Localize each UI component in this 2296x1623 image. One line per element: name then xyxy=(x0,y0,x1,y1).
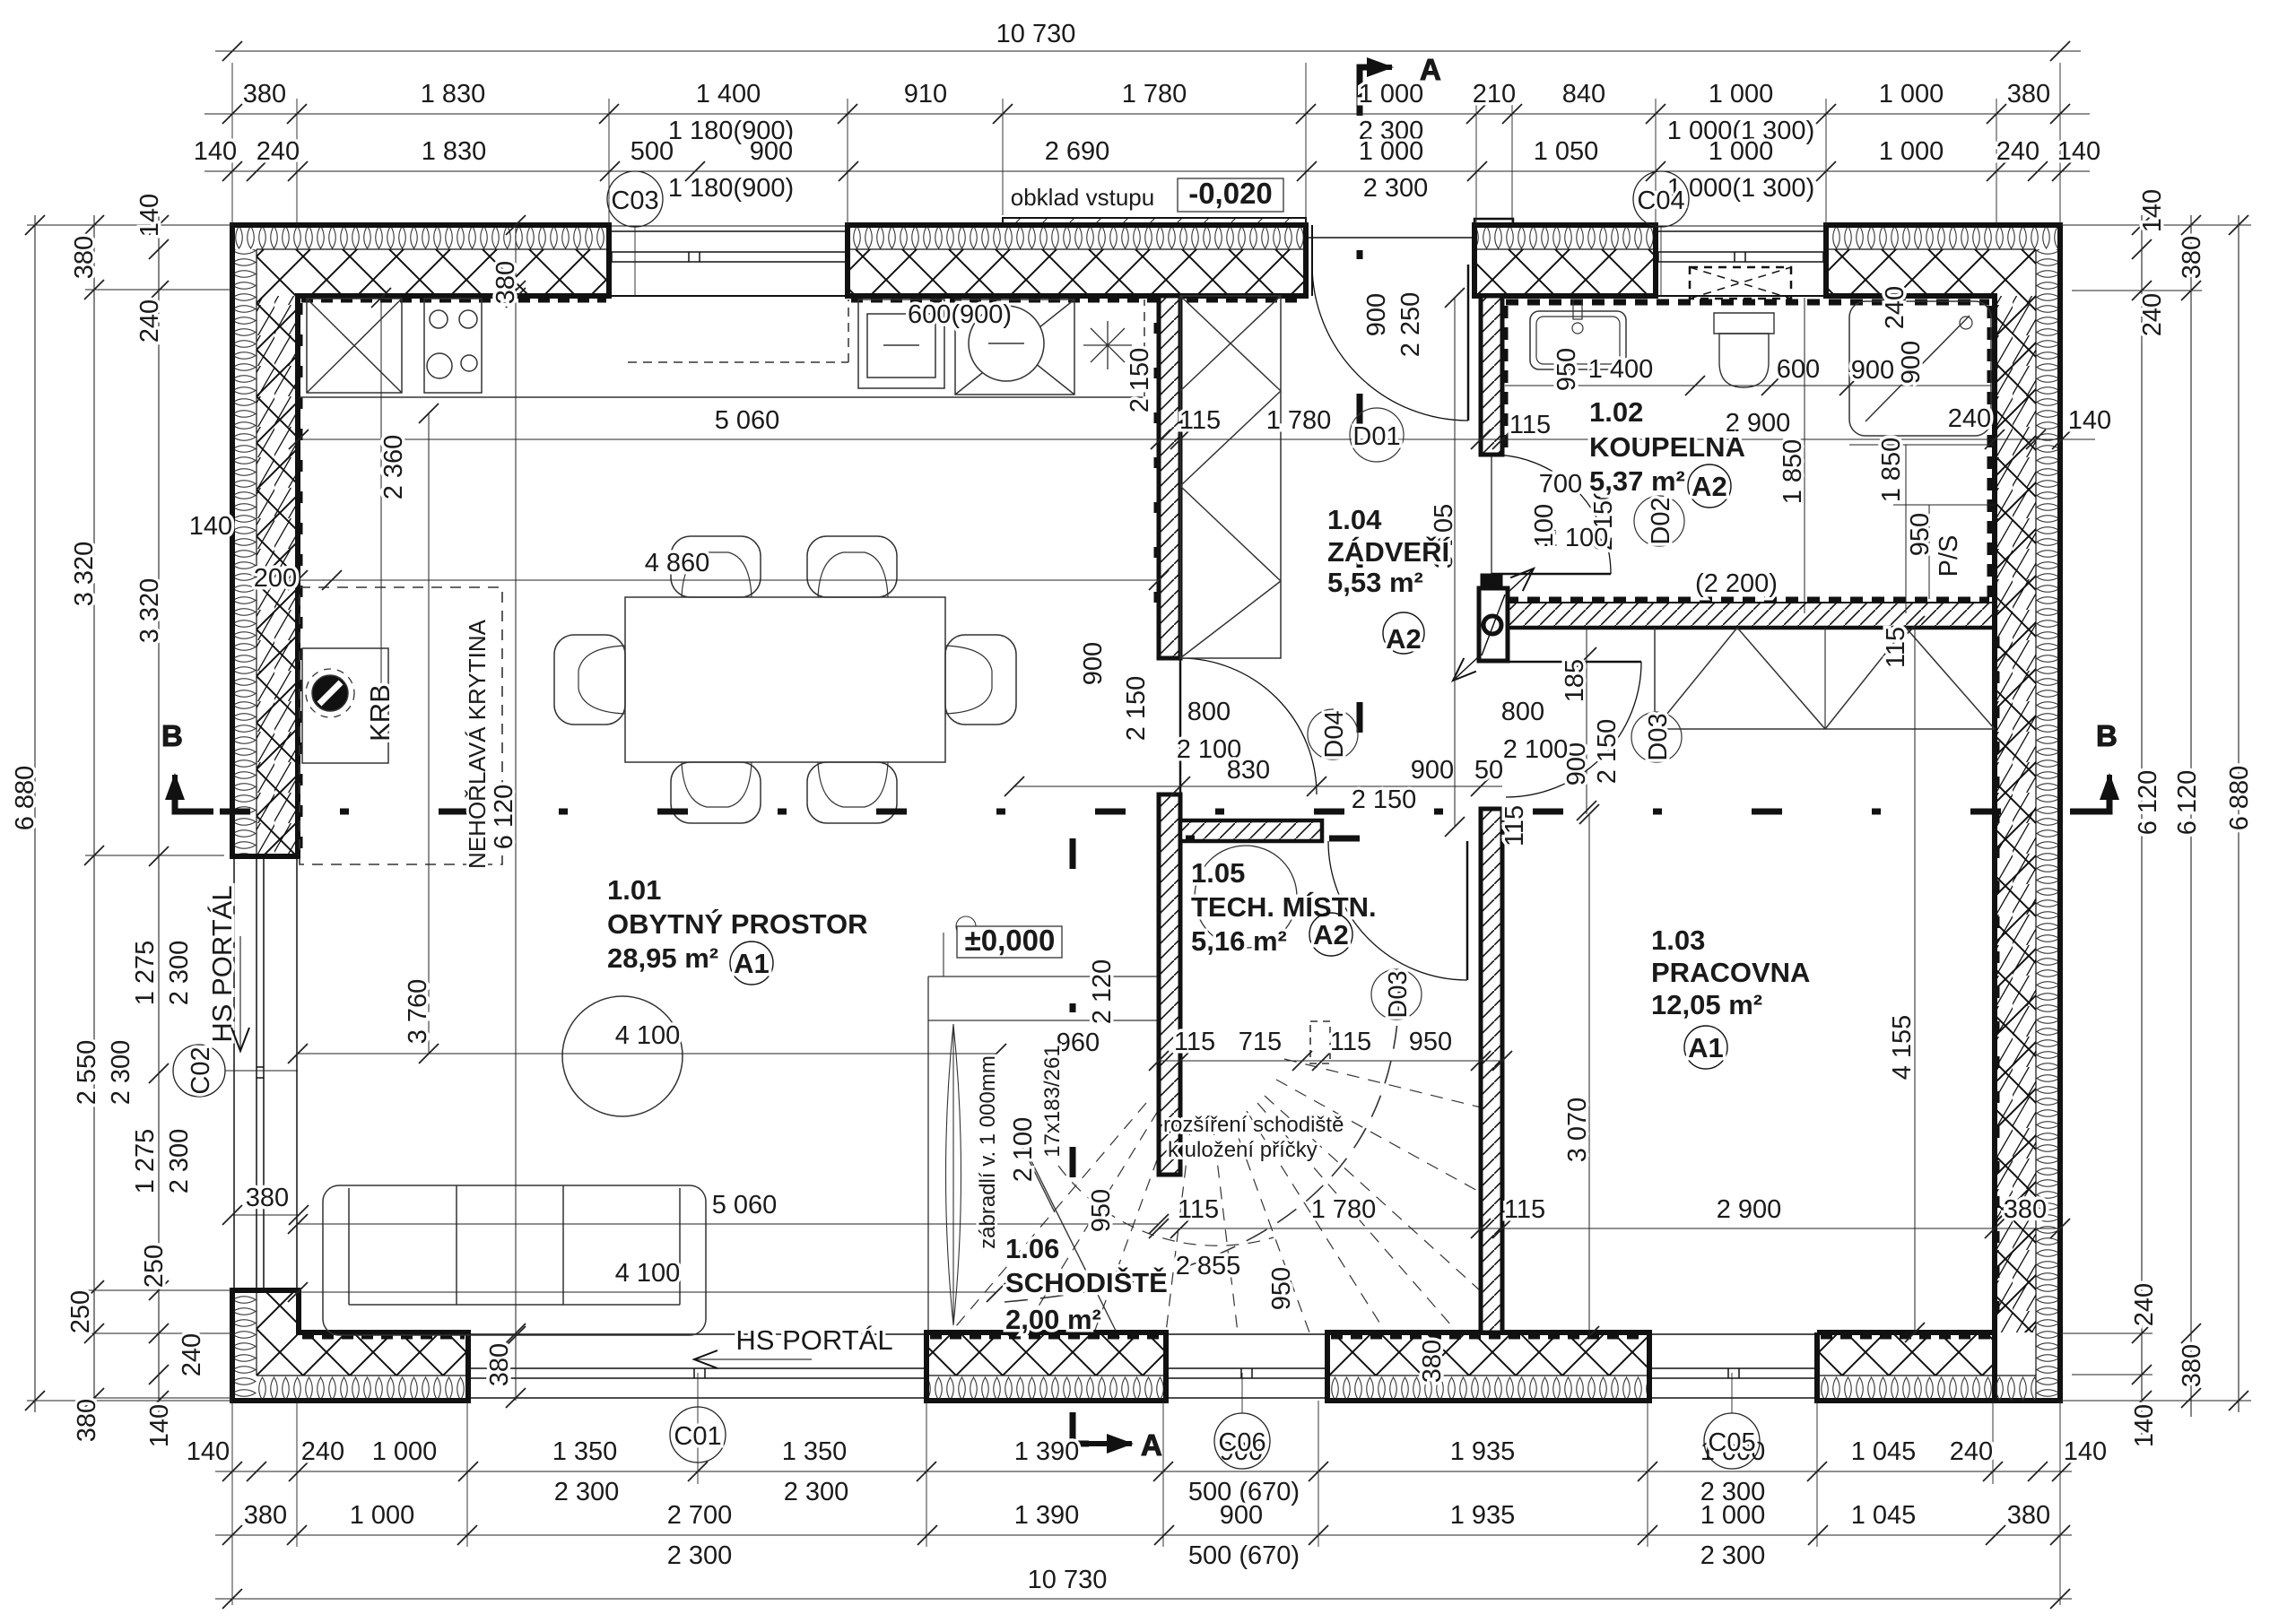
section A top arrow xyxy=(1360,67,1392,100)
svg-text:A2: A2 xyxy=(1313,919,1349,950)
svg-text:C02: C02 xyxy=(187,1046,215,1094)
svg-text:1 850: 1 850 xyxy=(1779,439,1807,505)
right dim col A xyxy=(2130,189,2167,1447)
svg-text:115: 115 xyxy=(1509,411,1551,439)
svg-text:1 935: 1 935 xyxy=(1450,1501,1516,1530)
HS PORTAL bottom xyxy=(694,1324,893,1359)
svg-text:1.05: 1.05 xyxy=(1191,857,1245,889)
svg-text:(2 200): (2 200) xyxy=(1695,569,1778,598)
window C04 (top right) xyxy=(1656,226,1826,299)
entrance door D01 xyxy=(1306,225,1474,421)
level -0,020 box xyxy=(1178,177,1283,212)
window circle C03 xyxy=(607,171,663,296)
interior wall W1 living/zadveri xyxy=(1157,296,1180,658)
svg-text:1 275: 1 275 xyxy=(131,941,160,1006)
svg-text:zábradlí v. 1 000mm: zábradlí v. 1 000mm xyxy=(976,1055,1000,1249)
svg-text:115: 115 xyxy=(1882,627,1910,668)
svg-text:115: 115 xyxy=(1174,1028,1215,1056)
svg-text:1 780: 1 780 xyxy=(1311,1195,1377,1224)
svg-text:1.03: 1.03 xyxy=(1651,924,1705,956)
svg-text:1 780: 1 780 xyxy=(1266,406,1332,435)
svg-text:240: 240 xyxy=(2130,1283,2159,1326)
svg-text:2 150: 2 150 xyxy=(1593,719,1622,785)
svg-text:115: 115 xyxy=(1330,1028,1371,1056)
svg-text:185: 185 xyxy=(1561,659,1589,702)
svg-text:210: 210 xyxy=(1473,80,1516,108)
svg-text:4 100: 4 100 xyxy=(615,1021,681,1050)
rozsireni schodiste note xyxy=(1163,1113,1344,1162)
wall stub below D02 xyxy=(1481,574,1502,588)
section line B-B horizontal y=905 xyxy=(220,809,2090,815)
dim row pracovna y=1370 xyxy=(1149,1195,2070,1238)
svg-text:950: 950 xyxy=(1087,1189,1116,1232)
window circle C01 xyxy=(670,1373,726,1462)
svg-text:A: A xyxy=(1141,1428,1162,1462)
svg-text:1 000: 1 000 xyxy=(1879,137,1944,166)
pracovna dims xyxy=(1563,616,1925,1346)
chair bottom 2 xyxy=(807,762,897,823)
svg-text:715: 715 xyxy=(1239,1028,1282,1056)
svg-text:1 400: 1 400 xyxy=(1588,355,1654,384)
window C01 (bottom) xyxy=(468,1334,926,1398)
room 1.04 zadveri xyxy=(1327,504,1450,655)
svg-text:D03: D03 xyxy=(1644,713,1673,760)
svg-text:2 300: 2 300 xyxy=(554,1478,620,1506)
svg-text:115: 115 xyxy=(1504,1195,1545,1224)
svg-text:140: 140 xyxy=(135,194,164,237)
svg-text:D01: D01 xyxy=(1352,422,1400,451)
svg-text:1 000: 1 000 xyxy=(1709,137,1774,166)
tech room dashed stub xyxy=(1310,1021,1330,1063)
svg-text:D02: D02 xyxy=(1647,497,1675,544)
svg-text:380: 380 xyxy=(2004,1195,2047,1224)
left dim col B xyxy=(66,215,135,1442)
svg-text:140: 140 xyxy=(2130,1404,2159,1447)
stair boundary left strip xyxy=(928,976,1159,1332)
interior dim living y=647 xyxy=(189,512,1169,593)
faucet star symbol xyxy=(1083,321,1132,369)
interior wall W2 living/stairs xyxy=(1159,794,1180,1175)
svg-text:380: 380 xyxy=(70,236,99,279)
extension lines bottom xyxy=(232,1401,2060,1605)
room 1.03 pracovna xyxy=(1651,924,1810,1069)
svg-text:ZÁDVEŘÍ: ZÁDVEŘÍ xyxy=(1327,535,1450,568)
door D04 zadveri xyxy=(1180,658,1317,794)
svg-text:5,53 m²: 5,53 m² xyxy=(1327,567,1423,598)
door circle D03 pracovna xyxy=(1631,712,1682,762)
bathroom tile lining bold dashes xyxy=(1505,302,1990,600)
living room circle xyxy=(562,996,683,1116)
wall top-middle segment xyxy=(848,218,1306,299)
svg-text:28,95 m²: 28,95 m² xyxy=(607,942,718,974)
svg-text:k uložení příčky: k uložení příčky xyxy=(1168,1138,1318,1162)
door circle D03 tech xyxy=(1371,969,1422,1020)
svg-text:2 360: 2 360 xyxy=(379,435,408,500)
section B right arrow xyxy=(2070,775,2109,811)
svg-text:6 880: 6 880 xyxy=(2225,766,2254,831)
svg-text:900: 900 xyxy=(1220,1501,1263,1530)
svg-text:140: 140 xyxy=(194,137,237,166)
svg-text:2 120: 2 120 xyxy=(1088,959,1117,1025)
svg-text:4 100: 4 100 xyxy=(615,1259,681,1288)
svg-text:1 830: 1 830 xyxy=(422,137,487,166)
chair top 1 xyxy=(671,536,761,597)
window circle C06 xyxy=(1214,1373,1270,1469)
svg-text:A1: A1 xyxy=(734,948,770,979)
section B left arrow xyxy=(175,775,213,811)
svg-text:140: 140 xyxy=(2138,189,2167,232)
svg-text:D03: D03 xyxy=(1384,970,1413,1018)
svg-text:1 000: 1 000 xyxy=(1879,80,1944,108)
svg-text:5 060: 5 060 xyxy=(712,1191,778,1219)
stair break line xyxy=(1031,1161,1119,1338)
window circle C02 xyxy=(173,1045,298,1097)
svg-text:900: 900 xyxy=(1897,341,1926,384)
svg-text:240: 240 xyxy=(135,299,164,343)
svg-text:2 300: 2 300 xyxy=(165,1129,194,1194)
chair bottom 1 xyxy=(671,762,761,823)
interior dim x=575 height 6120 xyxy=(485,215,526,1408)
top dim row 3 xyxy=(194,137,2100,203)
door D03 tech room xyxy=(1328,841,1467,980)
svg-text:900: 900 xyxy=(1362,293,1391,336)
svg-text:1 350: 1 350 xyxy=(552,1437,618,1466)
left dim col C xyxy=(131,194,206,1447)
right dim col C xyxy=(2225,215,2254,1412)
dim row tech y=1183 xyxy=(1149,1028,1512,1071)
svg-text:5,16 m²: 5,16 m² xyxy=(1191,925,1287,957)
svg-text:A2: A2 xyxy=(1386,623,1422,655)
obklad vstupu strip xyxy=(1003,218,1306,225)
koupelna vertical dims right xyxy=(1530,298,1995,613)
room 1.01 living xyxy=(607,874,868,985)
svg-text:SCHODIŠTĚ: SCHODIŠTĚ xyxy=(1005,1266,1168,1298)
svg-text:2 855: 2 855 xyxy=(1176,1252,1241,1280)
svg-text:obklad vstupu: obklad vstupu xyxy=(1011,184,1154,211)
svg-text:2 300: 2 300 xyxy=(1363,174,1429,203)
top dim row 1 xyxy=(215,20,2081,61)
svg-text:C06: C06 xyxy=(1218,1428,1265,1457)
svg-text:2 550: 2 550 xyxy=(73,1040,101,1106)
svg-text:380: 380 xyxy=(246,1184,289,1212)
bathroom toilet xyxy=(1714,313,1774,387)
svg-text:500 (670): 500 (670) xyxy=(1188,1541,1300,1570)
svg-text:380: 380 xyxy=(485,1343,514,1386)
door D03 pracovna xyxy=(1506,662,1641,797)
svg-text:380: 380 xyxy=(244,1501,287,1530)
svg-text:2 300: 2 300 xyxy=(667,1541,733,1570)
svg-text:rozšíření schodiště: rozšíření schodiště xyxy=(1163,1113,1344,1137)
svg-text:P/S: P/S xyxy=(1935,535,1963,577)
sofa xyxy=(323,1185,706,1335)
svg-text:6 120: 6 120 xyxy=(2173,770,2202,836)
svg-text:950: 950 xyxy=(1409,1028,1452,1056)
zadveri wardrobe xyxy=(1180,296,1281,658)
fireplace KRB xyxy=(300,587,502,864)
svg-text:2 250: 2 250 xyxy=(1396,292,1425,358)
svg-text:C05: C05 xyxy=(1708,1428,1755,1457)
kitchen oven xyxy=(858,299,944,388)
svg-text:D04: D04 xyxy=(1320,710,1349,758)
svg-text:380: 380 xyxy=(73,1399,101,1442)
svg-text:140: 140 xyxy=(2057,137,2100,166)
window C03 (top) xyxy=(609,226,848,296)
kitchen cooktop 4 burners xyxy=(424,299,482,393)
svg-text:2 690: 2 690 xyxy=(1045,137,1110,166)
interior wall W6 koupelna south xyxy=(1502,603,1995,628)
svg-text:3 760: 3 760 xyxy=(404,979,432,1045)
svg-text:1 780: 1 780 xyxy=(1122,80,1187,108)
stud dashes right wall interior xyxy=(1994,637,2000,1327)
svg-text:830: 830 xyxy=(1227,756,1270,785)
svg-text:115: 115 xyxy=(1178,1195,1219,1224)
interior dim x=478 (3 760) xyxy=(404,404,439,1063)
svg-text:250: 250 xyxy=(140,1245,169,1288)
svg-text:240: 240 xyxy=(1948,404,1991,433)
svg-text:6 120: 6 120 xyxy=(490,785,518,850)
svg-text:1 045: 1 045 xyxy=(1851,1437,1917,1466)
svg-text:1 045: 1 045 xyxy=(1851,1501,1917,1530)
svg-text:12,05 m²: 12,05 m² xyxy=(1651,989,1762,1020)
top dim row 2 xyxy=(204,80,2090,145)
door D03 pracovna dims x=1769 xyxy=(1501,626,1622,820)
svg-text:2 150: 2 150 xyxy=(1122,676,1151,742)
door circle D04 xyxy=(1308,709,1358,759)
svg-text:1 850: 1 850 xyxy=(1877,438,1906,503)
svg-text:1.01: 1.01 xyxy=(607,874,661,906)
svg-text:140: 140 xyxy=(2068,406,2111,435)
svg-text:2 700: 2 700 xyxy=(667,1501,733,1530)
svg-text:1 400: 1 400 xyxy=(696,80,761,108)
svg-text:500: 500 xyxy=(631,137,674,166)
svg-text:240: 240 xyxy=(257,137,300,166)
svg-text:2 900: 2 900 xyxy=(1717,1195,1782,1224)
window circle C04 xyxy=(1633,171,1689,296)
koupelna fixture dims y=430 xyxy=(1505,286,1991,395)
svg-text:10 730: 10 730 xyxy=(996,20,1076,48)
svg-text:3 070: 3 070 xyxy=(1563,1098,1592,1163)
dining table xyxy=(625,597,945,762)
interior dim line kitchen/zadveri/koupelna y=490 xyxy=(289,404,2111,449)
window C05 (bottom) xyxy=(1649,1334,1817,1398)
svg-text:115: 115 xyxy=(1179,406,1221,435)
stairs dims xyxy=(976,627,1910,1383)
interior dim sofa y=1441 xyxy=(288,1259,1006,1302)
svg-text:2 300: 2 300 xyxy=(165,941,194,1006)
section line A-A bottom part x=1196 xyxy=(1070,838,1076,1412)
svg-text:240: 240 xyxy=(178,1333,206,1376)
section A-A jog xyxy=(1073,836,1360,842)
svg-text:1 390: 1 390 xyxy=(1014,1501,1080,1530)
left dim col A xyxy=(11,215,45,1412)
svg-text:240: 240 xyxy=(1950,1437,1993,1466)
svg-text:OBYTNÝ PROSTOR: OBYTNÝ PROSTOR xyxy=(607,908,868,940)
room 1.02 koupelna xyxy=(1589,396,1745,508)
door circle D02 xyxy=(1634,496,1684,546)
svg-text:900: 900 xyxy=(1411,756,1454,785)
svg-text:2 300: 2 300 xyxy=(107,1040,135,1106)
svg-text:A1: A1 xyxy=(1688,1032,1724,1063)
svg-text:800: 800 xyxy=(1501,698,1544,726)
door circle D01 xyxy=(1350,408,1404,462)
pracovna wardrobe xyxy=(1655,628,1995,729)
svg-text:1 000: 1 000 xyxy=(1709,80,1774,108)
chair right xyxy=(945,635,1016,725)
svg-text:380: 380 xyxy=(1418,1340,1447,1383)
svg-text:140: 140 xyxy=(145,1404,174,1447)
section A bottom arrow xyxy=(1073,1412,1132,1444)
svg-text:900: 900 xyxy=(1079,642,1108,685)
svg-text:910: 910 xyxy=(904,80,947,108)
svg-text:380: 380 xyxy=(2178,236,2206,279)
svg-text:240: 240 xyxy=(1881,286,1909,329)
svg-text:840: 840 xyxy=(1562,80,1605,108)
extension lines top xyxy=(232,63,2060,225)
extension lines left xyxy=(27,225,232,1401)
svg-text:100: 100 xyxy=(1530,504,1559,547)
svg-text:1 000: 1 000 xyxy=(1700,1501,1766,1530)
svg-text:HS PORTÁL: HS PORTÁL xyxy=(206,885,238,1042)
svg-text:1.06: 1.06 xyxy=(1005,1233,1059,1264)
svg-text:1 390: 1 390 xyxy=(1014,1437,1080,1466)
svg-text:-0,020: -0,020 xyxy=(1188,177,1273,210)
svg-text:240: 240 xyxy=(2138,293,2167,336)
svg-text:2 300: 2 300 xyxy=(784,1478,849,1506)
svg-text:5 060: 5 060 xyxy=(715,406,780,435)
svg-text:950: 950 xyxy=(1552,348,1581,391)
interior dim living y=1175 (4 100) xyxy=(288,1021,1006,1063)
svg-text:1.02: 1.02 xyxy=(1589,396,1643,428)
zadveri D04 dims y=877 xyxy=(1004,348,1503,814)
bottom dim row 2 xyxy=(215,1501,2072,1570)
svg-text:C01: C01 xyxy=(674,1422,721,1451)
svg-text:140: 140 xyxy=(189,512,232,541)
railing lens xyxy=(946,1024,961,1325)
svg-text:10 730: 10 730 xyxy=(1028,1566,1108,1594)
kitchen tall cabinet with X xyxy=(307,299,402,393)
interior dim living y=1365 xyxy=(288,1191,1169,1234)
chair left xyxy=(554,635,625,725)
wall top-left L (exterior) xyxy=(232,225,609,856)
svg-text:1 180(900): 1 180(900) xyxy=(668,174,794,203)
window circle C05 xyxy=(1704,1373,1760,1469)
svg-text:17x183/261: 17x183/261 xyxy=(1040,1045,1065,1157)
svg-text:2 100: 2 100 xyxy=(1503,735,1569,764)
svg-text:±0,000: ±0,000 xyxy=(965,924,1056,957)
kitchen counter edge xyxy=(300,396,1144,398)
svg-text:KRB: KRB xyxy=(364,684,396,742)
svg-text:C03: C03 xyxy=(611,187,658,215)
svg-text:NEHOŘLAVÁ KRYTINA: NEHOŘLAVÁ KRYTINA xyxy=(464,619,491,869)
svg-text:6 120: 6 120 xyxy=(2134,770,2162,836)
svg-text:950: 950 xyxy=(1267,1267,1296,1310)
svg-text:1 275: 1 275 xyxy=(131,1129,160,1194)
svg-text:250: 250 xyxy=(66,1290,95,1333)
right dim col B xyxy=(2173,215,2206,1417)
bathroom sink xyxy=(1530,299,1626,369)
svg-text:2,00 m²: 2,00 m² xyxy=(1005,1304,1101,1335)
svg-text:A2: A2 xyxy=(1692,471,1727,502)
svg-text:380: 380 xyxy=(491,261,520,304)
wall top-right + right exterior L xyxy=(1826,225,2060,1401)
wall top segment C (right of entrance) xyxy=(1474,219,1656,296)
winder treads dashed fan xyxy=(951,1059,1481,1332)
svg-text:115: 115 xyxy=(1500,805,1529,846)
svg-text:2 150: 2 150 xyxy=(1126,348,1154,413)
svg-text:4 155: 4 155 xyxy=(1888,1015,1917,1081)
svg-text:TECH. MÍSTN.: TECH. MÍSTN. xyxy=(1191,891,1377,923)
svg-text:HS PORTÁL: HS PORTÁL xyxy=(735,1324,892,1356)
svg-text:1 000: 1 000 xyxy=(350,1501,415,1530)
section line A-A vertical (top part x=1516) xyxy=(1357,85,1363,838)
stud dashes bottom walls xyxy=(302,1333,1991,1340)
interior wall W4 pracovna west xyxy=(1481,809,1502,1332)
svg-text:4 860: 4 860 xyxy=(645,549,710,577)
svg-text:3 320: 3 320 xyxy=(70,542,99,607)
svg-text:50: 50 xyxy=(1474,756,1503,785)
svg-text:600: 600 xyxy=(1777,355,1820,384)
svg-text:1 050: 1 050 xyxy=(1534,137,1599,166)
door D02 koupelna xyxy=(1492,455,1611,574)
svg-text:B: B xyxy=(2096,719,2118,752)
svg-text:900: 900 xyxy=(750,137,793,166)
svg-text:5,37 m²: 5,37 m² xyxy=(1589,465,1685,497)
kitchen sink module xyxy=(955,299,1074,395)
svg-text:6 880: 6 880 xyxy=(11,766,39,831)
svg-text:2 100: 2 100 xyxy=(1009,1117,1038,1183)
zadveri vertical dims xyxy=(1362,292,1458,569)
room 1.06 stairs xyxy=(1005,1233,1168,1335)
svg-text:600(900): 600(900) xyxy=(908,300,1012,329)
level +-0,000 box xyxy=(957,924,1062,958)
chimney block xyxy=(1453,568,1534,681)
svg-text:140: 140 xyxy=(187,1437,230,1466)
chair top 2 xyxy=(807,536,897,597)
svg-text:2 150: 2 150 xyxy=(1352,785,1417,814)
interior wall W3 tech room top xyxy=(1180,820,1322,841)
interior dim x=425 kitchen depth xyxy=(371,288,408,709)
svg-text:KOUPELNA: KOUPELNA xyxy=(1589,431,1745,463)
svg-text:B: B xyxy=(161,719,183,752)
svg-text:380: 380 xyxy=(2007,1501,2050,1530)
stair up arrow dashed xyxy=(1004,991,1399,1302)
tech room boiler circle xyxy=(1195,846,1297,948)
portal 380 dim xyxy=(222,1184,309,1225)
svg-text:1 000: 1 000 xyxy=(1359,80,1424,108)
bottom dim row 1 xyxy=(187,1437,2107,1506)
wall bottom segment B2 xyxy=(926,1332,1166,1401)
svg-text:380: 380 xyxy=(2007,80,2050,108)
extension lines right xyxy=(2060,225,2251,1401)
svg-text:240: 240 xyxy=(1996,137,2039,166)
svg-text:200: 200 xyxy=(254,564,297,593)
room 1.05 tech xyxy=(1191,857,1377,957)
svg-text:380: 380 xyxy=(243,80,286,108)
svg-text:900: 900 xyxy=(1851,356,1894,385)
svg-text:3 320: 3 320 xyxy=(135,578,164,644)
portal window C02 (left) xyxy=(234,856,297,1290)
svg-text:1 935: 1 935 xyxy=(1450,1437,1516,1466)
svg-text:1 830: 1 830 xyxy=(421,80,486,108)
wall bottom segment B3 xyxy=(1327,1332,1649,1401)
svg-text:1 350: 1 350 xyxy=(782,1437,848,1466)
svg-text:2 300: 2 300 xyxy=(1700,1541,1766,1570)
HS PORTAL left rotated xyxy=(206,885,240,1051)
bathtub xyxy=(1849,298,1991,436)
svg-text:380: 380 xyxy=(2178,1344,2206,1387)
svg-text:PRACOVNA: PRACOVNA xyxy=(1651,957,1810,988)
svg-text:700: 700 xyxy=(1539,470,1582,499)
